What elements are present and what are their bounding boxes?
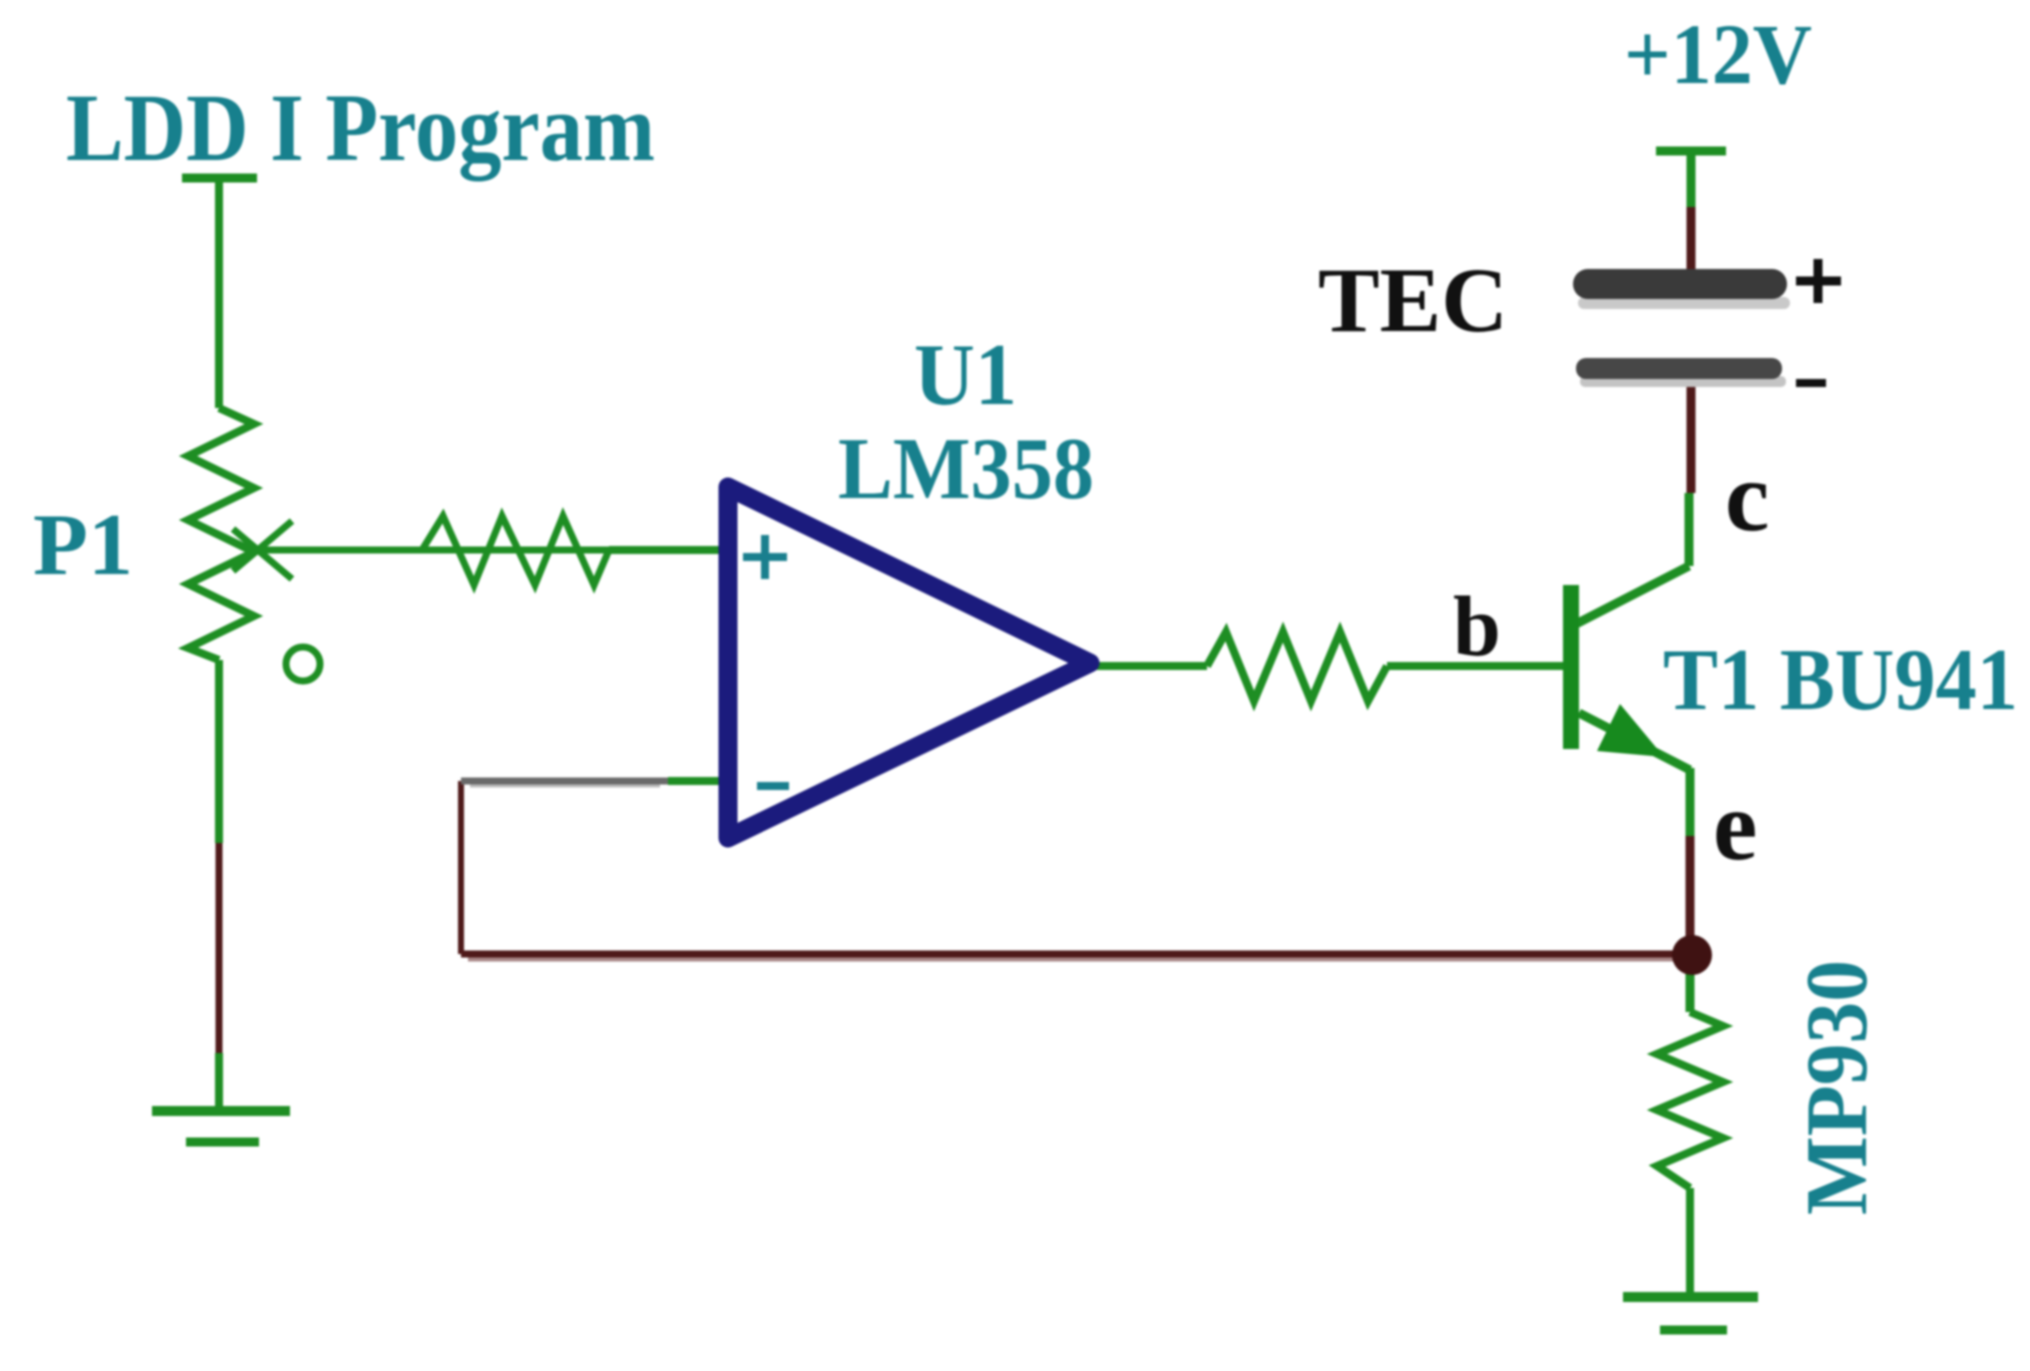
svg-text:e: e [1713, 770, 1757, 881]
svg-text:LM358: LM358 [838, 421, 1094, 518]
svg-text:P1: P1 [33, 497, 133, 594]
svg-text:T1 BU941: T1 BU941 [1663, 632, 2018, 729]
svg-text:TEC: TEC [1318, 249, 1508, 351]
svg-text:LDD I Program: LDD I Program [66, 74, 655, 181]
svg-text:b: b [1453, 578, 1501, 674]
svg-text:MP930: MP930 [1789, 960, 1886, 1215]
svg-text:c: c [1725, 441, 1769, 552]
svg-text:U1: U1 [914, 327, 1017, 424]
svg-text:+12V: +12V [1624, 6, 1812, 102]
